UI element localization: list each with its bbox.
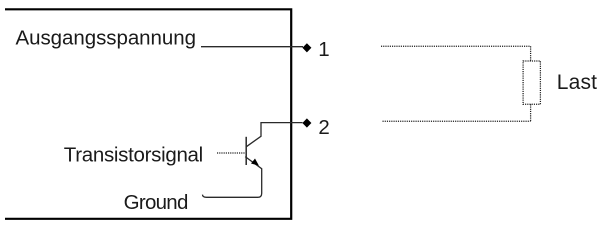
svg-text:1: 1: [318, 38, 329, 61]
svg-text:Transistorsignal: Transistorsignal: [64, 144, 203, 167]
svg-text:Ground: Ground: [124, 191, 189, 214]
svg-text:Last: Last: [557, 71, 597, 94]
svg-text:2: 2: [318, 116, 329, 139]
svg-text:Ausgangsspannung: Ausgangsspannung: [16, 27, 197, 50]
